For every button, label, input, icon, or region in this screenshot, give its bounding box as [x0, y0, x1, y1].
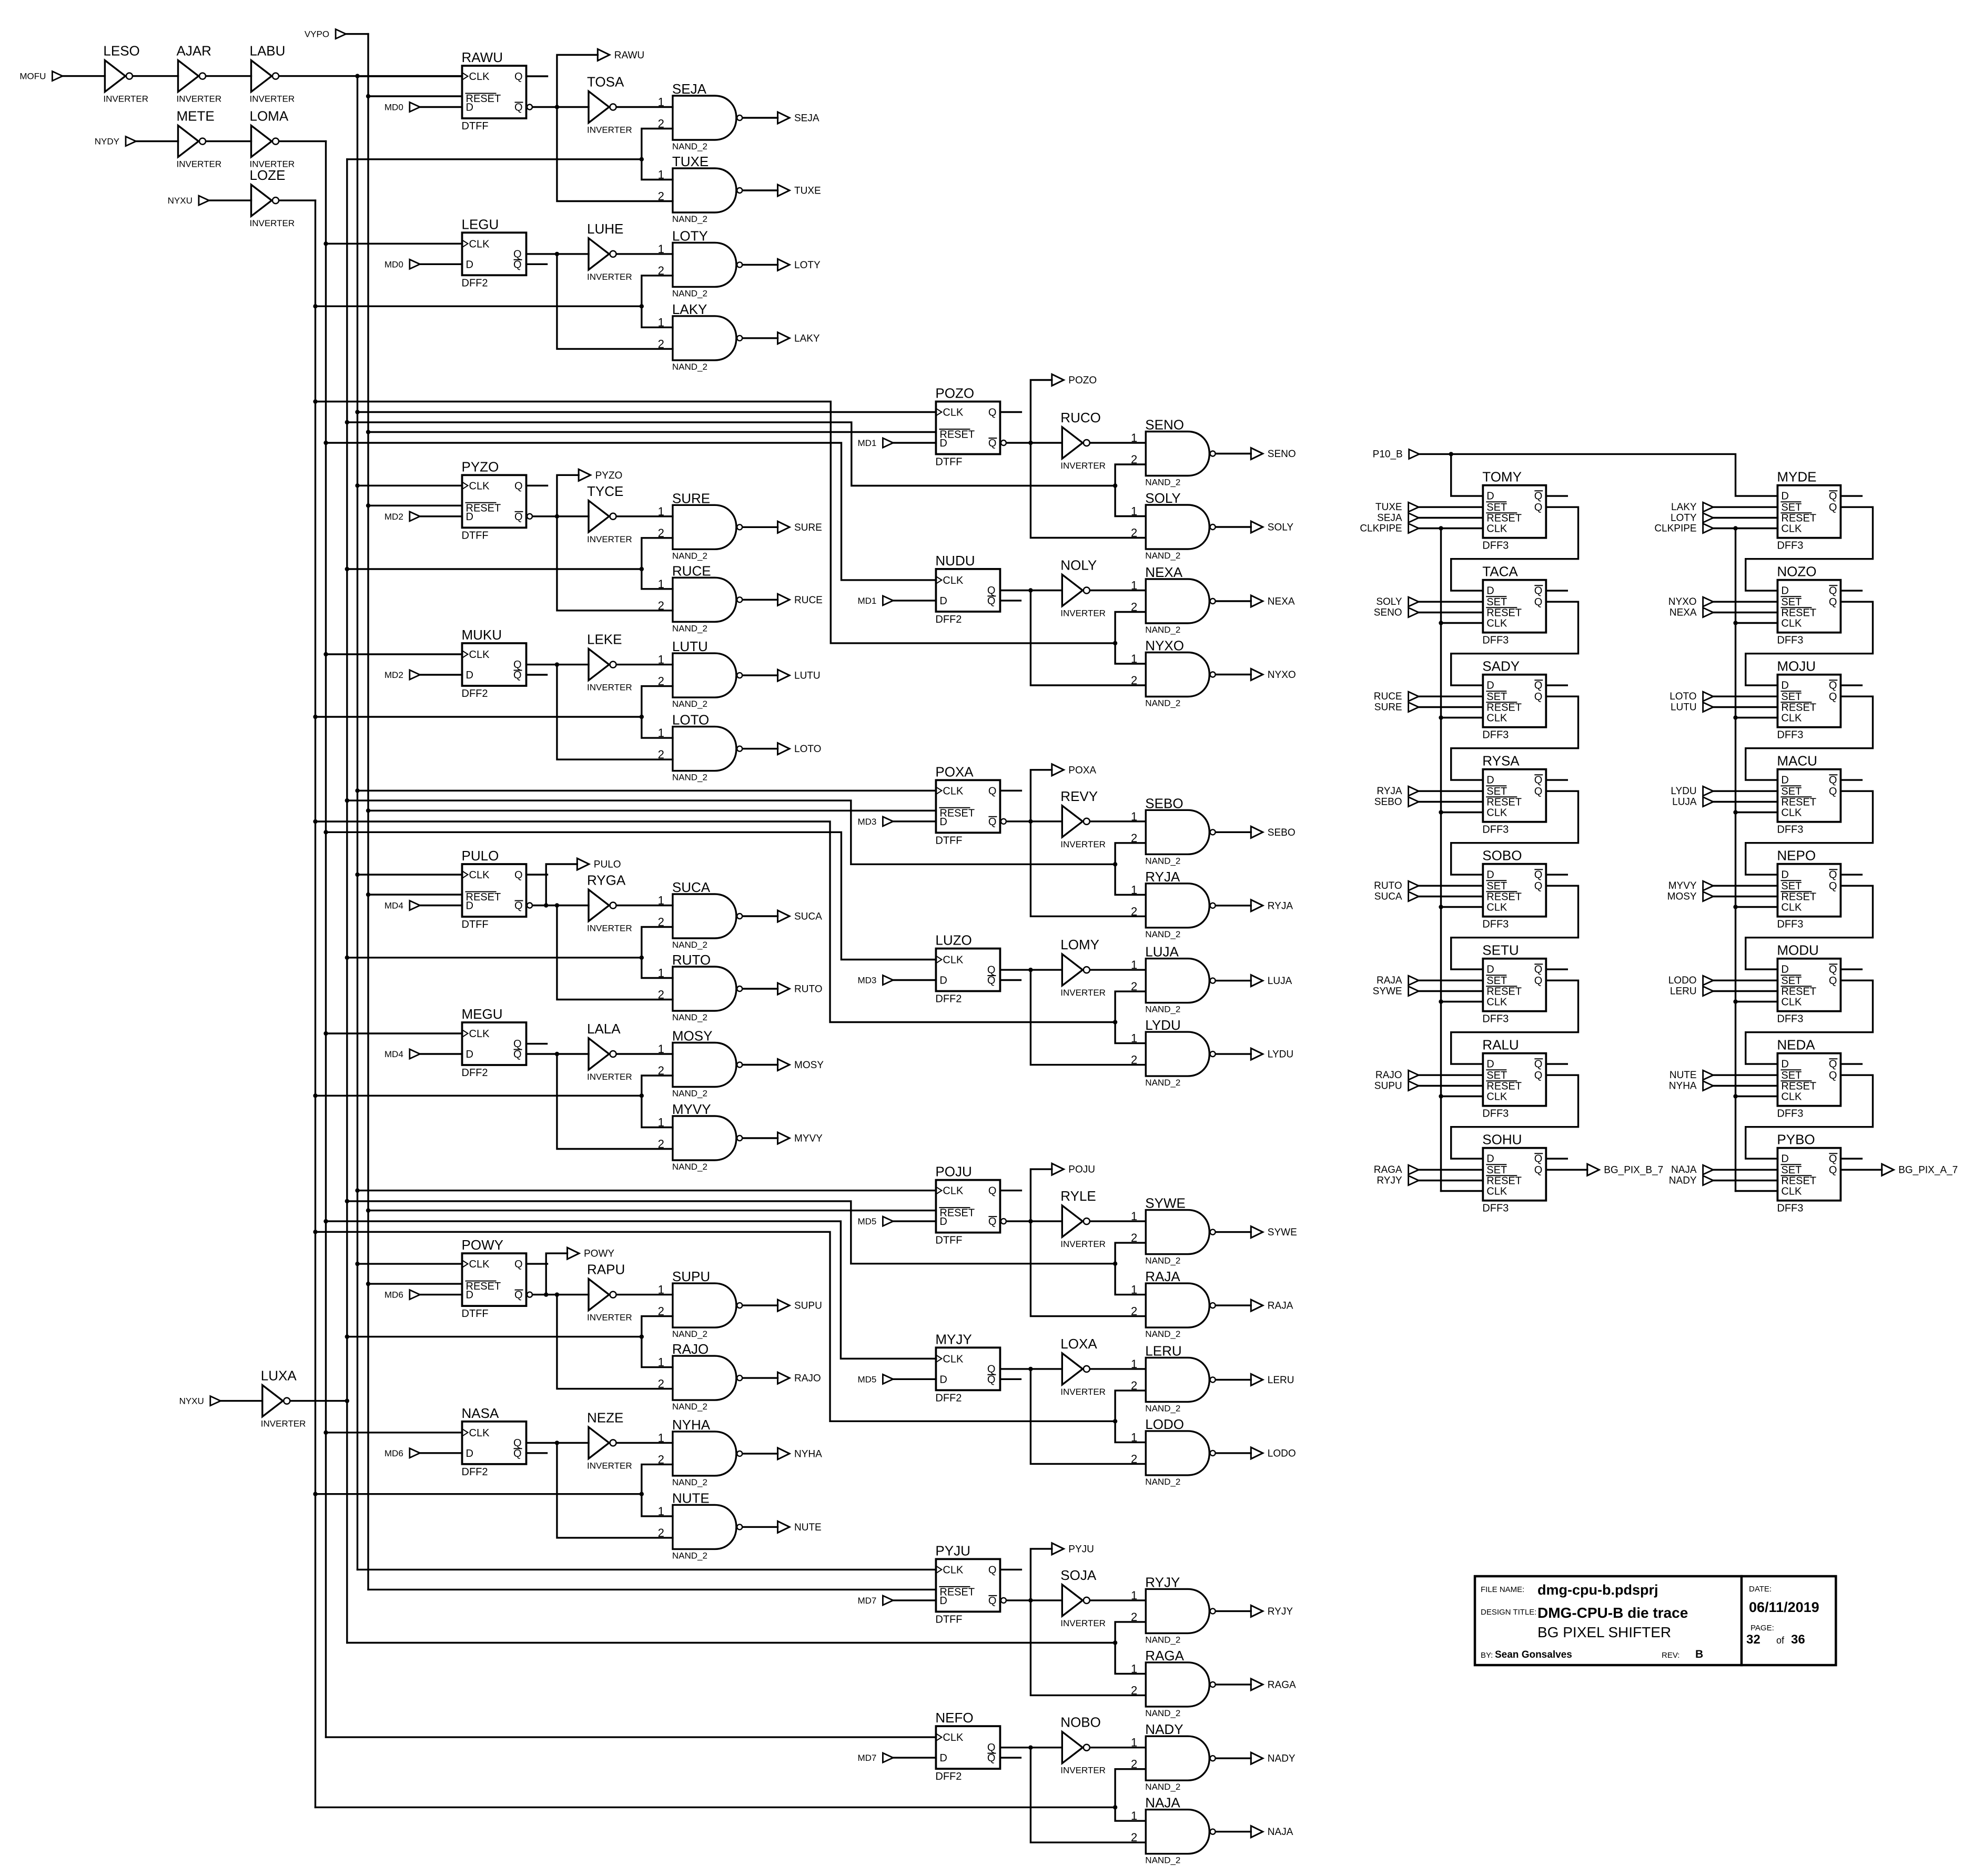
svg-text:MYDE: MYDE	[1777, 469, 1816, 485]
svg-text:LERU: LERU	[1145, 1343, 1181, 1358]
svg-text:LUJA: LUJA	[1268, 976, 1292, 987]
svg-text:RESET: RESET	[1781, 607, 1816, 619]
input port MD4 (PULO)	[385, 901, 420, 911]
wire SEJA output	[743, 117, 778, 118]
wire RAJA output	[1216, 1304, 1251, 1306]
wire MACU Q to next D (serpentine)	[1746, 791, 1873, 875]
svg-text:MD0: MD0	[385, 103, 403, 113]
svg-text:NAND_2: NAND_2	[672, 623, 707, 633]
svg-text:INVERTER: INVERTER	[1060, 988, 1106, 998]
svg-text:BY:: BY:	[1481, 1651, 1493, 1660]
svg-text:INVERTER: INVERTER	[1060, 609, 1106, 618]
wire MD1 to POZO D	[894, 442, 936, 443]
svg-text:Q: Q	[1534, 964, 1543, 976]
wire PYZO Qb riser to RUCE in2	[557, 516, 673, 611]
svg-text:PYJU: PYJU	[935, 1543, 970, 1558]
svg-text:MYVY: MYVY	[794, 1133, 823, 1144]
wire NUTE output	[743, 1526, 778, 1528]
wire PYZO Qb to TYCE	[533, 514, 589, 519]
svg-text:LOTO: LOTO	[794, 744, 821, 755]
svg-text:D: D	[939, 1374, 947, 1385]
svg-text:PYZO: PYZO	[595, 470, 623, 481]
svg-text:SYWE: SYWE	[1145, 1195, 1186, 1211]
svg-text:TUXE: TUXE	[672, 154, 709, 169]
svg-text:RESET: RESET	[1486, 607, 1522, 619]
svg-text:LUHE: LUHE	[587, 221, 623, 237]
svg-text:DFF3: DFF3	[1777, 824, 1803, 836]
svg-text:LUTU: LUTU	[672, 638, 708, 654]
svg-text:LOTO: LOTO	[1670, 691, 1696, 702]
svg-text:D: D	[1486, 585, 1494, 597]
input port MD0 (RAWU)	[385, 103, 420, 113]
svg-text:MD2: MD2	[385, 512, 403, 522]
output port NAJA	[1251, 1826, 1293, 1838]
svg-text:RESET: RESET	[1486, 1175, 1522, 1187]
svg-text:SURE: SURE	[794, 522, 822, 533]
svg-text:MD1: MD1	[857, 596, 876, 606]
wire RALU Q to next D (serpentine)	[1451, 1075, 1579, 1159]
input port LERU (MODU RESET)	[1670, 986, 1713, 997]
svg-text:MYVY: MYVY	[672, 1101, 711, 1117]
svg-text:NEXA: NEXA	[1268, 596, 1295, 607]
wire PULO Qb riser to RUTO in2	[557, 906, 673, 1000]
svg-text:CLK: CLK	[1781, 902, 1802, 914]
svg-text:Q: Q	[1534, 1153, 1543, 1165]
wire shared input SURE/RUCE	[347, 567, 644, 571]
svg-text:DFF3: DFF3	[1777, 635, 1803, 646]
svg-text:Q: Q	[514, 869, 523, 881]
nand gate RUCE	[658, 563, 743, 633]
svg-text:NAJA: NAJA	[1268, 1827, 1293, 1838]
wire NEFO cell shared feed	[316, 1807, 1116, 1808]
wire LUTU in2 / LOTO in1 riser	[642, 686, 673, 738]
dff3 PYBO	[1777, 1132, 1840, 1214]
wire SOHU Q to output	[1546, 1169, 1587, 1170]
svg-text:Q: Q	[1829, 1070, 1837, 1081]
svg-text:CLK: CLK	[469, 869, 490, 881]
wire NUTE to NEDA SET	[1714, 1074, 1777, 1076]
svg-text:CLK: CLK	[1781, 1091, 1802, 1103]
svg-text:NAND_2: NAND_2	[672, 1477, 707, 1487]
svg-text:NAND_2: NAND_2	[672, 551, 707, 561]
wire RAPU out to SUPU in1	[617, 1294, 673, 1295]
input port RUCE (SADY SET)	[1374, 691, 1419, 702]
svg-text:METE: METE	[177, 108, 215, 124]
title block	[1475, 1576, 1836, 1665]
svg-text:of: of	[1776, 1635, 1785, 1646]
wire MYJY unused output stub	[1000, 1378, 1020, 1380]
svg-text:CLK: CLK	[943, 407, 964, 419]
nand gate MOSY	[658, 1028, 743, 1099]
svg-text:SET: SET	[1486, 502, 1507, 513]
wire LOTY to MYDE RESET	[1714, 517, 1777, 519]
svg-text:Q: Q	[987, 1752, 996, 1764]
nand gate RAJO	[658, 1341, 743, 1412]
svg-text:D: D	[939, 1216, 947, 1228]
dff3 MODU	[1777, 942, 1840, 1025]
svg-text:Q: Q	[514, 71, 523, 83]
svg-text:Q: Q	[1829, 680, 1837, 692]
svg-text:Q: Q	[988, 785, 997, 797]
input port LAKY (MYDE SET)	[1671, 502, 1713, 513]
inverter LABU	[250, 43, 295, 104]
wire TUXE to TOMY SET	[1419, 506, 1483, 508]
svg-text:Q: Q	[1829, 964, 1837, 976]
svg-text:RAGA: RAGA	[1268, 1679, 1296, 1690]
svg-text:DFF3: DFF3	[1482, 540, 1509, 552]
wire shared input MOSY/MYVY	[316, 1093, 644, 1098]
svg-text:CLK: CLK	[469, 1427, 490, 1439]
svg-text:LYDU: LYDU	[1145, 1017, 1180, 1033]
svg-text:RUCE: RUCE	[794, 595, 823, 606]
svg-text:LALA: LALA	[587, 1021, 621, 1037]
nand gate LOTO	[658, 712, 743, 783]
svg-text:NUTE: NUTE	[794, 1522, 822, 1533]
wire POWY RESET feed	[368, 1283, 462, 1284]
input port MD4 (MEGU)	[385, 1049, 420, 1059]
svg-text:Q: Q	[1829, 585, 1837, 597]
svg-text:NAND_2: NAND_2	[1145, 551, 1180, 561]
svg-text:D: D	[1781, 964, 1788, 976]
wire LUZO CLK feed	[326, 832, 936, 959]
svg-text:CLK: CLK	[943, 1564, 964, 1576]
wire REVY out to SEBO in1	[1090, 820, 1146, 822]
svg-text:LERU: LERU	[1670, 986, 1697, 997]
svg-text:LODO: LODO	[1268, 1448, 1296, 1459]
svg-text:INVERTER: INVERTER	[1060, 461, 1106, 471]
input port LOTO (MOJU SET)	[1670, 691, 1713, 702]
dff2 NUDU	[935, 553, 1000, 625]
wire NEXA in2 / NYXO in1 riser	[1115, 612, 1146, 664]
svg-text:CLKPIPE: CLKPIPE	[1360, 523, 1402, 534]
svg-text:SET: SET	[1781, 880, 1802, 892]
wire PULO RESET feed	[368, 894, 462, 895]
output port SYWE	[1251, 1226, 1297, 1239]
svg-text:MD3: MD3	[857, 817, 876, 827]
svg-text:NAND_2: NAND_2	[672, 1329, 707, 1339]
wire SOLY output	[1216, 526, 1251, 528]
wire MOSY to NEPO RESET	[1714, 896, 1777, 897]
svg-text:NYDY: NYDY	[95, 137, 119, 147]
wire P10_B to both banks	[1420, 452, 1777, 496]
wire LERU output	[1216, 1379, 1251, 1381]
wire MYJY cell shared feed	[316, 1232, 1116, 1421]
input port MD0 (LEGU)	[385, 259, 420, 269]
wire LABU out to RAWU CLK	[280, 74, 462, 78]
wire CLKPIPE bus to NEPO CLK	[1733, 905, 1777, 909]
svg-text:SUCA: SUCA	[672, 879, 711, 895]
svg-text:DFF2: DFF2	[935, 993, 962, 1005]
output port POZO out	[1052, 374, 1097, 387]
svg-text:NAND_2: NAND_2	[672, 1012, 707, 1022]
wire LUZO Q to LOMY	[1000, 968, 1062, 972]
svg-text:NEZE: NEZE	[587, 1409, 623, 1425]
svg-text:Q: Q	[988, 816, 997, 828]
svg-text:D: D	[1486, 964, 1494, 976]
svg-text:SOLY: SOLY	[1376, 596, 1402, 607]
svg-text:LOTY: LOTY	[794, 260, 821, 271]
wire MD5 to MYJY D	[894, 1378, 936, 1380]
inverter LOMY	[1060, 937, 1106, 998]
wire SYWE to SETU RESET	[1419, 990, 1483, 992]
dff2 NASA	[462, 1405, 527, 1478]
svg-text:Q: Q	[1829, 975, 1837, 987]
wire shared input LOTY/LAKY	[316, 304, 644, 308]
output port MOSY	[778, 1059, 824, 1071]
nand gate LAKY	[658, 301, 743, 372]
svg-text:SET: SET	[1486, 596, 1507, 608]
wire POXA Q stub	[1000, 790, 1021, 792]
svg-text:PAGE:: PAGE:	[1751, 1624, 1774, 1632]
wire NOZO Q to next D (serpentine)	[1746, 602, 1873, 685]
svg-text:LAKY: LAKY	[794, 333, 820, 344]
svg-text:SET: SET	[1781, 596, 1802, 608]
wire PYJU CLK feed	[358, 1569, 936, 1570]
wire PULO Qb to RYGA	[533, 903, 589, 907]
dff3 SETU	[1482, 942, 1546, 1025]
inverter LOZE	[250, 167, 295, 228]
wire MEGU Q to LALA	[527, 1052, 589, 1056]
svg-text:RYJA: RYJA	[1268, 900, 1293, 911]
dff3 NEDA	[1777, 1037, 1840, 1120]
wire POJU RESET feed	[368, 1210, 936, 1211]
wire NADY in2 / NAJA in1 riser	[1115, 1769, 1146, 1821]
wire LOTO to MOJU SET	[1714, 695, 1777, 697]
wire NYDY to METE	[137, 140, 178, 142]
svg-text:D: D	[1781, 491, 1788, 502]
svg-text:CLK: CLK	[469, 1028, 490, 1040]
nand gate LYDU	[1131, 1017, 1216, 1088]
svg-text:NAND_2: NAND_2	[1145, 478, 1180, 488]
input port NYXU2	[179, 1396, 221, 1406]
wire NEFO Q riser to NAJA in2	[1030, 1748, 1146, 1843]
wire PYJU Q stub	[1000, 1569, 1021, 1570]
input port MD2 (PYZO)	[385, 512, 420, 522]
dff3 MACU	[1777, 753, 1840, 836]
wire LALA out to MOSY in1	[617, 1053, 673, 1054]
svg-text:Q: Q	[514, 511, 523, 523]
nand gate TUXE	[658, 154, 743, 224]
svg-text:RUTO: RUTO	[794, 984, 822, 995]
wire RAWU RESET feed	[368, 95, 462, 97]
wire NYXU to LOZE	[209, 199, 251, 201]
wire NEZE out to NYHA in1	[617, 1442, 673, 1444]
svg-text:SUPU: SUPU	[794, 1301, 822, 1312]
wire MD4 to MEGU D	[420, 1053, 462, 1054]
wire MD2 to PYZO D	[420, 515, 462, 517]
svg-text:Q: Q	[1534, 1070, 1543, 1081]
wire POJU CLK feed	[358, 1190, 936, 1191]
wire LEGU unused output stub	[527, 263, 547, 265]
svg-text:D: D	[466, 511, 473, 523]
wire NEXA output	[1216, 600, 1251, 602]
svg-text:D: D	[939, 975, 947, 987]
wire RYJA to RYSA SET	[1419, 790, 1483, 792]
nand gate MYVY	[658, 1101, 743, 1172]
svg-text:LUTU: LUTU	[1671, 702, 1697, 713]
wire MYJY Q to LOXA	[1000, 1367, 1062, 1371]
wire NYXO to NOZO SET	[1714, 601, 1777, 602]
dff2 LEGU	[462, 216, 527, 289]
svg-text:NEXA: NEXA	[1670, 607, 1697, 618]
wire POXA outport riser	[1030, 770, 1051, 822]
svg-text:P10_B: P10_B	[1373, 449, 1403, 460]
svg-text:INVERTER: INVERTER	[250, 218, 295, 228]
wire NYXU to LUXA	[221, 1400, 262, 1402]
dff3 MYDE	[1777, 469, 1840, 552]
wire POZO Q stub	[1000, 411, 1021, 413]
input port LUTU (MOJU RESET)	[1671, 702, 1713, 713]
svg-text:D: D	[939, 1752, 947, 1764]
wire TOMY Qb stub	[1546, 495, 1567, 496]
svg-text:SET: SET	[1781, 1164, 1802, 1176]
svg-text:RAWU: RAWU	[614, 50, 644, 61]
wire RAJO output	[743, 1377, 778, 1378]
svg-text:LOMA: LOMA	[250, 108, 289, 124]
output port LUTU	[778, 670, 821, 682]
nand gate SYWE	[1131, 1195, 1216, 1266]
svg-text:RESET: RESET	[1486, 702, 1522, 714]
wire LUTU output	[743, 674, 778, 676]
svg-text:CLK: CLK	[1486, 997, 1507, 1008]
output port SUCA	[778, 910, 823, 922]
svg-text:DFF2: DFF2	[462, 277, 488, 289]
wire RUTO to SOBO SET	[1419, 885, 1483, 886]
node shared junction SYWE/RAJA	[1113, 1262, 1117, 1266]
input port SUPU (RALU RESET)	[1374, 1081, 1419, 1092]
svg-text:SEBO: SEBO	[1374, 797, 1402, 808]
svg-text:MD7: MD7	[857, 1753, 876, 1763]
svg-text:DTFF: DTFF	[935, 1614, 962, 1625]
inverter REVY	[1060, 788, 1106, 849]
wire LUXA out to bus	[290, 1400, 347, 1402]
svg-text:Q: Q	[513, 259, 522, 270]
wire SOHU Qb stub	[1546, 1158, 1567, 1159]
svg-text:D: D	[1486, 869, 1494, 881]
svg-text:Q: Q	[1534, 869, 1543, 881]
svg-text:CLK: CLK	[943, 955, 964, 966]
svg-text:DMG-CPU-B die trace: DMG-CPU-B die trace	[1537, 1605, 1688, 1621]
wire LAKY output	[743, 337, 778, 339]
wire RAWU outport riser	[557, 55, 598, 107]
dff3 MOJU	[1777, 658, 1840, 741]
wire AJAR to LABU	[207, 75, 251, 77]
svg-text:Q: Q	[1534, 1164, 1543, 1176]
svg-text:POJU: POJU	[935, 1164, 972, 1180]
svg-text:Q: Q	[1829, 596, 1837, 608]
input port LODO (MODU SET)	[1668, 975, 1713, 986]
wire NEPO Qb stub	[1840, 874, 1861, 875]
svg-text:RUCE: RUCE	[1374, 691, 1402, 702]
svg-text:DESIGN TITLE:: DESIGN TITLE:	[1481, 1608, 1536, 1617]
wire NYHA to NEDA RESET	[1714, 1085, 1777, 1087]
dtff PULO	[462, 848, 533, 930]
input port LUJA (MACU RESET)	[1672, 797, 1713, 808]
svg-text:NAND_2: NAND_2	[672, 1089, 707, 1099]
svg-text:NAND_2: NAND_2	[672, 288, 707, 298]
svg-text:RAJO: RAJO	[794, 1373, 821, 1384]
svg-text:SENO: SENO	[1268, 449, 1296, 460]
svg-text:D: D	[1486, 775, 1494, 786]
wire POXA Qb to REVY	[1007, 819, 1062, 824]
wire POJU Q stub	[1000, 1190, 1021, 1191]
svg-text:Q: Q	[987, 585, 996, 596]
node shared junction NEXA/NYXO	[1113, 641, 1117, 645]
output port RAWU out	[598, 49, 644, 61]
wire SADY Q to next D (serpentine)	[1451, 696, 1579, 780]
inverter TOSA	[587, 74, 632, 135]
input port SURE (SADY RESET)	[1374, 702, 1419, 713]
svg-text:RAGA: RAGA	[1374, 1164, 1402, 1175]
svg-text:RESET: RESET	[1781, 797, 1816, 808]
svg-text:SET: SET	[1486, 1164, 1507, 1176]
output port LUJA	[1251, 975, 1292, 987]
svg-text:CLK: CLK	[943, 1353, 964, 1365]
svg-text:POXA: POXA	[1068, 765, 1096, 776]
nand gate LUTU	[658, 638, 743, 709]
svg-text:SET: SET	[1486, 1070, 1507, 1081]
svg-text:DFF3: DFF3	[1777, 729, 1803, 741]
svg-text:NOBO: NOBO	[1060, 1715, 1101, 1730]
wire TOSA out to SEJA in1	[617, 106, 673, 108]
wire NEPO Q to next D (serpentine)	[1746, 886, 1873, 969]
wire SETU Q to next D (serpentine)	[1451, 980, 1579, 1064]
inverter LUXA	[261, 1368, 306, 1429]
svg-text:SEBO: SEBO	[1268, 827, 1296, 838]
input port SEJA (TOMY RESET)	[1377, 513, 1419, 524]
wire MYJY Q riser to LODO in2	[1030, 1369, 1146, 1464]
svg-text:RAJO: RAJO	[672, 1341, 709, 1357]
svg-text:D: D	[1781, 585, 1788, 597]
wire MD6 to POWY D	[420, 1294, 462, 1295]
svg-text:RYGA: RYGA	[587, 873, 626, 888]
input port MD7 (PYJU)	[857, 1596, 893, 1606]
wire RUCE to SADY SET	[1419, 695, 1483, 697]
wire MODU Qb stub	[1840, 968, 1861, 970]
wire RAGA output	[1216, 1684, 1251, 1685]
svg-text:PULO: PULO	[594, 859, 621, 870]
svg-text:SET: SET	[1486, 786, 1507, 797]
dtff RAWU	[462, 49, 533, 132]
wire RYJY to SOHU RESET	[1419, 1180, 1483, 1181]
wire MYDE Q to next D (serpentine)	[1746, 507, 1873, 591]
wire LEGU Q to LUHE	[527, 252, 589, 256]
node shared junction LERU/LODO	[1113, 1419, 1117, 1423]
svg-text:RAJO: RAJO	[1375, 1070, 1402, 1081]
inverter TYCE	[587, 483, 632, 544]
svg-text:RAWU: RAWU	[462, 49, 503, 65]
svg-text:NYHA: NYHA	[672, 1417, 711, 1433]
svg-text:MD1: MD1	[857, 438, 876, 448]
input port CLKPIPE (TOMY)	[1360, 523, 1419, 534]
dff2 MYJY	[935, 1331, 1000, 1404]
svg-text:SEJA: SEJA	[672, 81, 707, 97]
wire LUZO Q riser to LYDU in2	[1030, 970, 1146, 1065]
svg-text:TUXE: TUXE	[794, 186, 821, 197]
input port MD1 (NUDU)	[857, 596, 893, 606]
svg-text:D: D	[939, 595, 947, 607]
svg-text:D: D	[1781, 775, 1788, 786]
svg-text:POXA: POXA	[935, 764, 974, 779]
wire POWY CLK feed	[358, 1263, 462, 1264]
nand gate LUJA	[1131, 944, 1216, 1015]
svg-text:RYLE: RYLE	[1060, 1188, 1096, 1204]
wire POJU cell shared feed	[347, 1201, 1115, 1264]
svg-text:SURE: SURE	[672, 490, 710, 506]
dtff POWY	[462, 1237, 533, 1320]
wire CLKPIPE bus to NEDA CLK	[1733, 1094, 1777, 1098]
output port RYJA	[1251, 900, 1293, 912]
